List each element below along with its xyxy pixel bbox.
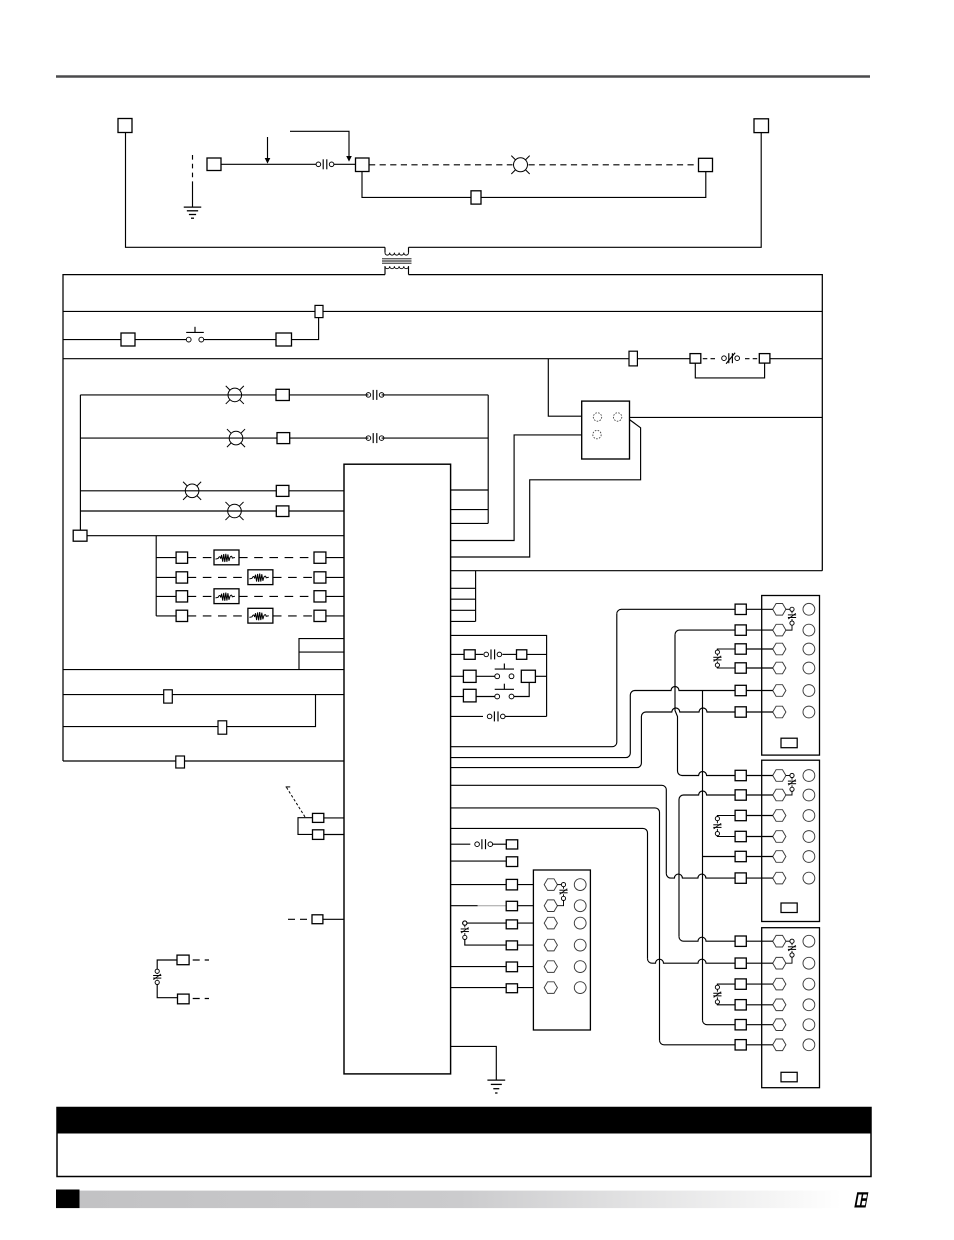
wire dashed stub: [288, 918, 308, 920]
wire: [746, 836, 773, 838]
terminal: [121, 333, 135, 346]
hole: [574, 900, 586, 912]
terminal: [735, 707, 746, 717]
terminal: [315, 305, 323, 317]
lamp L4: [228, 504, 242, 518]
terminal block TB1: [762, 596, 820, 756]
ground G1: [192, 155, 194, 184]
terminal B5: [73, 530, 87, 541]
wire dashed: [273, 615, 314, 617]
contact C5: [484, 652, 489, 657]
terminal: [506, 962, 517, 972]
wire dashed stub: [193, 998, 209, 1000]
wire: [451, 717, 642, 768]
lamp L0: [514, 158, 528, 172]
wire: [770, 358, 822, 360]
wire: [666, 874, 735, 879]
terminal: [314, 610, 326, 621]
terminal: [463, 689, 476, 702]
wire: [63, 669, 344, 671]
wire: [87, 535, 344, 537]
wire: [514, 682, 529, 696]
footer bar: [56, 1190, 80, 1209]
terminal T3: [356, 158, 370, 172]
wire: [451, 696, 464, 698]
terminal: [463, 670, 476, 682]
wire dashed: [188, 615, 248, 617]
wire: [518, 944, 545, 946]
wire: [326, 557, 344, 559]
wire: [641, 708, 735, 717]
wire: [451, 695, 631, 758]
wire: [746, 648, 773, 650]
note box: [57, 1108, 871, 1177]
wire: [289, 490, 344, 492]
wire: [648, 959, 736, 964]
wire: [451, 860, 507, 862]
terminal: [313, 813, 324, 822]
wire: [451, 828, 648, 958]
wire: [746, 962, 773, 964]
wire dashed: [239, 557, 314, 559]
wire: [289, 394, 368, 396]
terminal: [735, 936, 746, 946]
arrow leader: [290, 131, 349, 156]
terminal TB4-5: [544, 961, 557, 973]
terminal TB1-1: [773, 604, 786, 616]
wire: [326, 615, 344, 617]
hole: [574, 961, 586, 973]
wire: [518, 884, 545, 886]
wire: [382, 394, 489, 396]
wire dashed: [188, 557, 214, 559]
wire: [481, 172, 706, 198]
wire: [326, 595, 344, 597]
wire: [451, 587, 476, 589]
heater H2: [248, 570, 273, 585]
hole: [574, 982, 586, 994]
wire: [746, 815, 773, 817]
wire: [476, 675, 495, 677]
transformer TR1: [384, 247, 386, 252]
wire: [493, 843, 507, 845]
wire: [221, 163, 316, 165]
wire chain: [675, 635, 678, 771]
terminal: [735, 790, 746, 800]
heater H1: [214, 550, 239, 565]
wire: [467, 922, 506, 924]
capacitor: [717, 649, 735, 650]
terminal: [735, 1040, 746, 1050]
wire: [475, 653, 483, 655]
terminal TB4-2: [544, 900, 557, 912]
wire: [451, 522, 489, 524]
terminal TB1-3: [773, 643, 786, 655]
terminal: [178, 994, 190, 1004]
wire riser: [79, 395, 81, 530]
wire: [290, 437, 369, 439]
contact C3: [366, 436, 371, 441]
terminal: [506, 901, 517, 910]
hole: [803, 935, 815, 947]
wire: [324, 834, 344, 836]
hole: [803, 872, 815, 884]
wire: [465, 940, 506, 946]
terminal: [276, 485, 289, 496]
wire: [326, 576, 344, 578]
logo: [854, 1192, 868, 1207]
wire: [451, 785, 667, 873]
lamp L2: [229, 431, 243, 445]
wire: [156, 595, 176, 597]
terminal: [312, 915, 323, 924]
wire: [478, 905, 507, 907]
wire: [451, 420, 641, 557]
wire: [80, 394, 276, 396]
wire: [157, 985, 177, 998]
wire: [451, 620, 476, 622]
terminal TB3-6: [773, 1039, 786, 1051]
capacitor: [717, 816, 735, 817]
wire: [451, 1046, 497, 1079]
wire: [746, 1044, 773, 1046]
terminal: [276, 506, 289, 517]
wire: [451, 675, 464, 677]
wire: [63, 760, 344, 762]
terminal block TB4: [533, 870, 590, 1030]
terminal: [690, 354, 701, 364]
wire: [451, 843, 471, 845]
wire: [126, 133, 386, 248]
wire: [334, 163, 356, 165]
terminal: [177, 955, 189, 965]
hole: [803, 624, 815, 636]
wire: [451, 966, 507, 968]
wire: [675, 630, 735, 635]
wire dashed: [703, 358, 716, 360]
terminal TB4-6: [544, 982, 557, 994]
pushbutton PB3: [495, 694, 500, 699]
wire: [451, 489, 489, 491]
wire bracket: [298, 818, 313, 835]
terminal: [314, 572, 326, 583]
wire: [746, 1024, 773, 1026]
capacitor TB2cap: [786, 775, 790, 777]
terminal: [735, 958, 746, 968]
contact K1 nc: [722, 356, 727, 361]
terminal: [735, 831, 746, 841]
terminal: [735, 625, 746, 635]
wire: [451, 987, 507, 989]
wire: [746, 856, 773, 858]
terminal: [176, 756, 185, 768]
wire dashed: [369, 164, 513, 166]
wire: [299, 651, 344, 653]
wire: [548, 359, 581, 417]
terminal: [735, 1020, 746, 1030]
panel boundary: [63, 275, 385, 761]
terminal: [735, 685, 746, 695]
terminal: [506, 840, 517, 849]
terminal: [506, 857, 517, 867]
lamp L3: [185, 484, 199, 498]
terminal: [735, 644, 746, 654]
terminal: [735, 663, 746, 673]
terminal: [735, 873, 746, 883]
wire: [679, 937, 735, 942]
hole: [803, 662, 815, 674]
heater H3: [214, 589, 239, 604]
wire: [382, 437, 489, 439]
terminal: [521, 670, 535, 682]
terminal TB3-2: [773, 957, 786, 969]
wire: [451, 614, 617, 747]
hole: [803, 643, 815, 655]
pushbutton PB2: [495, 674, 500, 679]
terminal TB2-1: [773, 770, 786, 782]
terminal TB3-3: [773, 978, 786, 990]
terminal TB2-2: [773, 789, 786, 801]
wire: [746, 608, 773, 610]
ground G2: [487, 1079, 505, 1081]
hole: [803, 1019, 815, 1031]
heater H4: [248, 608, 273, 623]
terminal TB3-4: [773, 999, 786, 1011]
hole: [803, 706, 815, 718]
wire: [703, 1020, 736, 1025]
terminal: [735, 810, 746, 820]
wire: [703, 856, 736, 858]
wire: [156, 615, 176, 617]
wire: [746, 983, 773, 985]
wire: [80, 490, 276, 492]
terminal: [506, 920, 517, 929]
wire: [204, 339, 276, 341]
wire dashed: [273, 576, 314, 578]
leader line: [286, 786, 291, 788]
wire: [746, 667, 773, 669]
terminal TB1-4: [773, 662, 786, 674]
controller U1: [344, 464, 451, 1074]
wire: [476, 696, 495, 698]
wire dashed stub: [193, 959, 209, 961]
terminal TB2-5: [773, 851, 786, 863]
terminal: [506, 984, 517, 993]
wire: [746, 1004, 773, 1006]
hole: [803, 810, 815, 822]
terminal TB4-1: [544, 879, 557, 891]
hole: [803, 957, 815, 969]
wire dashed: [188, 576, 248, 578]
wire: [63, 694, 344, 696]
wire dashed: [188, 595, 214, 597]
terminal: [735, 851, 746, 861]
terminal: [735, 979, 746, 989]
terminal: [506, 941, 517, 950]
contact C2: [366, 393, 371, 398]
contact C1: [316, 162, 321, 167]
hole: [574, 917, 586, 929]
wire: [451, 435, 582, 541]
terminal block TB2: [762, 760, 820, 921]
wire bus: [155, 536, 157, 616]
wire: [63, 339, 121, 341]
terminal TB2-3: [773, 810, 786, 822]
terminal TB2-6: [773, 872, 786, 884]
contact C6: [487, 714, 492, 719]
wire: [135, 339, 186, 341]
terminal T5: [471, 191, 481, 204]
terminal: [464, 650, 475, 660]
terminal TB4-4: [544, 939, 557, 951]
hole: [803, 685, 815, 697]
terminal TB1-2: [773, 624, 786, 636]
wire enclosure: [451, 635, 547, 716]
wire: [746, 629, 773, 631]
connector: [781, 1072, 797, 1082]
hole: [803, 851, 815, 863]
wire: [451, 609, 476, 611]
wire: [80, 510, 276, 512]
terminal T1: [118, 119, 132, 133]
terminal TB1-5: [773, 685, 786, 697]
wire: [527, 653, 547, 655]
wire: [157, 960, 177, 969]
wire dashed: [239, 595, 314, 597]
wire: [289, 510, 344, 512]
terminal: [759, 354, 770, 364]
hole: [803, 789, 815, 801]
wire: [746, 940, 773, 942]
contact C7: [475, 842, 480, 847]
terminal: [313, 830, 324, 840]
arrow: [267, 137, 269, 158]
wire: [535, 675, 546, 677]
hole: [803, 1039, 815, 1051]
wire: [617, 609, 735, 614]
wire: [299, 639, 344, 670]
wire: [746, 877, 773, 879]
wire bus: [487, 395, 489, 524]
wire bus: [475, 571, 477, 622]
wire chain: [702, 691, 704, 1021]
connector: [781, 738, 797, 748]
node: [463, 921, 467, 925]
bus wire: [63, 310, 822, 312]
wire: [323, 918, 344, 920]
lamp L1: [228, 388, 242, 402]
terminal: [517, 650, 527, 660]
hole: [803, 831, 815, 843]
hole: [803, 603, 815, 615]
wire: [746, 794, 773, 796]
terminal: [735, 770, 746, 780]
capacitor C8: [463, 921, 467, 925]
page top rule: [56, 75, 870, 78]
capacitor C4: [155, 969, 159, 973]
terminal: [276, 333, 292, 346]
terminal T2: [207, 158, 221, 171]
hole: [574, 879, 586, 891]
wire: [292, 318, 319, 340]
terminal TB2-4: [773, 831, 786, 843]
wire: [518, 905, 545, 907]
terminal: [276, 389, 289, 400]
wire: [63, 695, 316, 727]
wire: [451, 570, 823, 572]
terminal: [735, 604, 746, 614]
wire: [451, 905, 478, 907]
hole: [803, 999, 815, 1011]
terminal TB1-6: [773, 706, 786, 718]
terminal T6: [754, 119, 769, 133]
terminal: [176, 591, 188, 602]
wire: [746, 711, 773, 713]
hole: [803, 978, 815, 990]
wire: [678, 771, 736, 776]
connector: [781, 903, 797, 913]
capacitor TB3cap: [786, 940, 790, 942]
terminal TB4-3: [544, 917, 557, 929]
wire chain: [678, 800, 680, 937]
wire: [518, 987, 545, 989]
terminal: [176, 552, 188, 563]
wire: [156, 576, 176, 578]
bus wire: [63, 358, 690, 360]
wire: [679, 791, 735, 800]
terminal: [176, 572, 188, 583]
hole: [574, 939, 586, 951]
capacitor: [717, 984, 735, 985]
wire: [518, 922, 545, 924]
wire: [80, 437, 277, 439]
terminal: [506, 879, 517, 890]
wire: [660, 1040, 736, 1045]
terminal: [735, 1000, 746, 1010]
wire: [362, 172, 471, 198]
wire: [324, 817, 344, 819]
pushbutton PB1: [186, 337, 191, 342]
wire: [502, 653, 516, 655]
wire: [451, 808, 660, 1040]
wire: [518, 966, 545, 968]
wire: [156, 557, 176, 559]
wire: [451, 653, 465, 655]
wire: [630, 416, 823, 418]
wire dashed: [745, 358, 758, 360]
wire: [746, 775, 773, 777]
wire: [409, 133, 762, 248]
wire: [451, 884, 507, 886]
terminal block TB3: [762, 928, 820, 1088]
capacitor C9: [557, 884, 561, 886]
wire: [630, 687, 735, 696]
terminal TB3-5: [773, 1019, 786, 1031]
terminal TB3-1: [773, 935, 786, 947]
wire: [505, 715, 546, 717]
relay CB1: [582, 401, 630, 459]
wire: [451, 509, 489, 511]
terminal: [314, 591, 326, 602]
terminal: [176, 610, 188, 621]
wire: [451, 598, 476, 600]
wire: [746, 690, 773, 692]
terminal: [314, 552, 326, 563]
hole: [803, 770, 815, 782]
terminal: [277, 433, 290, 444]
wire: [451, 715, 483, 717]
terminal: [629, 351, 637, 366]
